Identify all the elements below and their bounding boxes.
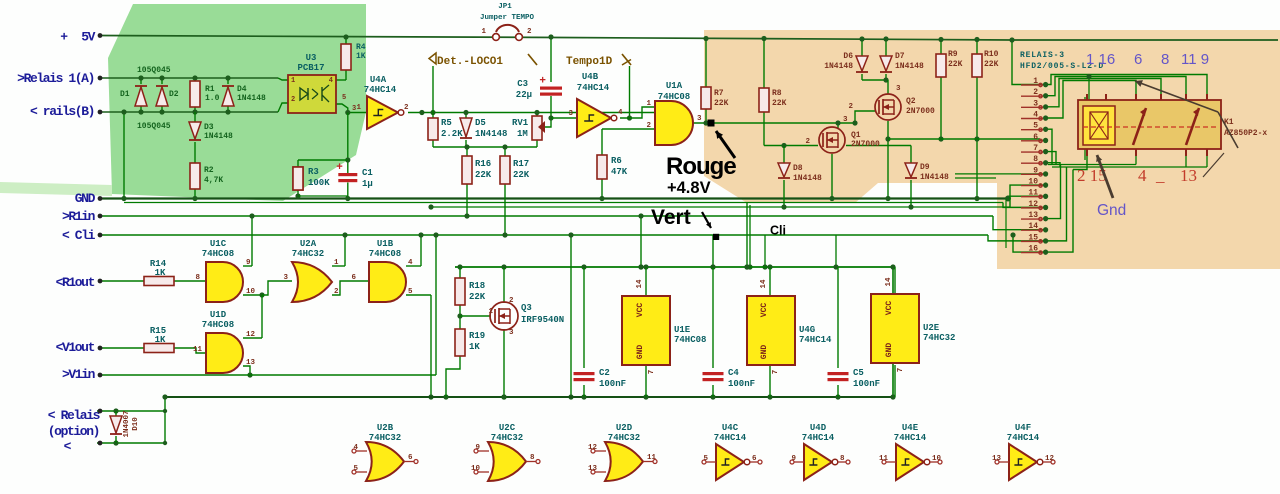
svg-text:8: 8 xyxy=(1161,51,1169,68)
svg-text:74HC08: 74HC08 xyxy=(674,335,706,345)
svg-text:74HC32: 74HC32 xyxy=(292,249,324,259)
svg-text:R2: R2 xyxy=(204,166,214,175)
svg-text:C1: C1 xyxy=(362,168,373,178)
svg-text:R17: R17 xyxy=(513,159,529,169)
svg-text:12: 12 xyxy=(1045,455,1055,463)
svg-text:R19: R19 xyxy=(469,331,485,341)
svg-text:U4D: U4D xyxy=(810,423,827,433)
svg-text:11: 11 xyxy=(879,455,889,463)
svg-text:1K: 1K xyxy=(155,268,166,278)
svg-text:D3: D3 xyxy=(204,123,214,132)
svg-text:22K: 22K xyxy=(714,99,729,108)
svg-text:4: 4 xyxy=(353,444,358,452)
svg-text:+: + xyxy=(539,76,546,88)
svg-text:D10: D10 xyxy=(132,417,140,431)
svg-text:13: 13 xyxy=(588,465,598,473)
svg-text:5: 5 xyxy=(408,288,413,296)
svg-text:74HC08: 74HC08 xyxy=(658,92,690,102)
svg-text:74HC14: 74HC14 xyxy=(802,433,835,443)
svg-text:1N4148: 1N4148 xyxy=(920,173,949,182)
svg-text:R4: R4 xyxy=(356,43,366,52)
svg-text:R10: R10 xyxy=(984,50,999,59)
svg-text:7: 7 xyxy=(648,370,656,375)
svg-text:<V1out: <V1out xyxy=(56,340,95,355)
svg-text:D6: D6 xyxy=(843,52,853,61)
svg-text:C2: C2 xyxy=(599,368,610,378)
svg-text:74HC14: 74HC14 xyxy=(577,83,610,93)
svg-text:U2B: U2B xyxy=(377,423,394,433)
svg-text:R1: R1 xyxy=(205,85,215,94)
svg-text:1K: 1K xyxy=(155,335,166,345)
svg-text:R3: R3 xyxy=(308,167,319,177)
svg-text:6: 6 xyxy=(351,274,356,282)
svg-text:7: 7 xyxy=(772,370,780,375)
svg-text:9: 9 xyxy=(246,259,251,267)
svg-text:U2D: U2D xyxy=(616,423,633,433)
svg-text:VCC: VCC xyxy=(760,303,769,318)
svg-text:< Cli: < Cli xyxy=(62,228,96,243)
svg-text:74HC14: 74HC14 xyxy=(799,335,832,345)
svg-text:U1D: U1D xyxy=(210,310,227,320)
svg-text:U3: U3 xyxy=(306,53,317,63)
svg-text:22µ: 22µ xyxy=(516,90,532,100)
svg-text:PCB17: PCB17 xyxy=(297,63,324,73)
svg-text:1N4148: 1N4148 xyxy=(824,62,853,71)
svg-text:74HC14: 74HC14 xyxy=(364,85,397,95)
svg-text:1N4148: 1N4148 xyxy=(204,132,233,141)
svg-text:Det.-LOCO1: Det.-LOCO1 xyxy=(437,56,503,68)
svg-text:R5: R5 xyxy=(441,118,452,128)
svg-text:1K: 1K xyxy=(356,52,366,61)
svg-text:1.0: 1.0 xyxy=(205,94,220,103)
svg-text:U4A: U4A xyxy=(370,75,387,85)
svg-text:1 16: 1 16 xyxy=(1086,51,1115,68)
svg-text:2N7000: 2N7000 xyxy=(851,140,880,149)
svg-text:22K: 22K xyxy=(948,60,963,69)
svg-text:74HC14: 74HC14 xyxy=(714,433,747,443)
svg-text:GND: GND xyxy=(75,191,96,206)
svg-text:2: 2 xyxy=(527,28,532,36)
svg-text:1N4007: 1N4007 xyxy=(123,410,131,437)
svg-text:1N4148: 1N4148 xyxy=(793,174,822,183)
svg-text:GND: GND xyxy=(885,343,894,358)
svg-text:74HC08: 74HC08 xyxy=(202,249,234,259)
svg-text:< rails(B): < rails(B) xyxy=(30,104,94,119)
svg-text:3: 3 xyxy=(568,110,573,118)
svg-text:2: 2 xyxy=(404,104,409,112)
svg-text:100nF: 100nF xyxy=(728,379,755,389)
svg-text:14: 14 xyxy=(760,279,768,289)
svg-text:22K: 22K xyxy=(475,170,492,180)
svg-text:>Relais 1(A): >Relais 1(A) xyxy=(17,71,94,86)
svg-text:Cli: Cli xyxy=(770,224,786,238)
svg-text:Vert: Vert xyxy=(651,206,691,229)
svg-text:<R1out: <R1out xyxy=(56,275,95,290)
svg-text:D4: D4 xyxy=(237,85,247,94)
svg-text:>R1in: >R1in xyxy=(62,209,96,224)
svg-text:D8: D8 xyxy=(793,164,803,173)
svg-text:U4B: U4B xyxy=(582,72,599,82)
svg-text:22K: 22K xyxy=(984,60,999,69)
svg-text:2: 2 xyxy=(805,138,810,146)
svg-text:6: 6 xyxy=(1134,51,1142,68)
svg-text:1K: 1K xyxy=(469,342,480,352)
svg-text:3: 3 xyxy=(283,274,288,282)
svg-text:C3: C3 xyxy=(517,79,528,89)
svg-text:Rouge: Rouge xyxy=(666,153,736,180)
svg-text:RELAIS-3: RELAIS-3 xyxy=(1020,51,1065,60)
svg-text:1: 1 xyxy=(646,100,651,108)
svg-text:U2E: U2E xyxy=(923,323,940,333)
svg-text:74HC14: 74HC14 xyxy=(894,433,927,443)
svg-text:D1: D1 xyxy=(120,90,130,99)
svg-text:2: 2 xyxy=(334,288,339,296)
svg-text:1: 1 xyxy=(334,259,339,267)
svg-text:R6: R6 xyxy=(611,156,622,166)
svg-text:U1A: U1A xyxy=(666,81,683,91)
svg-text:22K: 22K xyxy=(513,170,530,180)
svg-text:2: 2 xyxy=(509,297,514,305)
svg-text:3: 3 xyxy=(843,116,848,124)
svg-text:2: 2 xyxy=(291,96,295,104)
svg-text:5: 5 xyxy=(342,94,346,102)
svg-text:11: 11 xyxy=(647,454,657,462)
svg-text:12: 12 xyxy=(246,331,256,339)
svg-text:3: 3 xyxy=(896,85,901,93)
svg-text:1: 1 xyxy=(481,28,486,36)
svg-text:1N4148: 1N4148 xyxy=(237,94,266,103)
svg-text:Q3: Q3 xyxy=(521,303,532,313)
svg-text:VCC: VCC xyxy=(636,303,645,318)
svg-text:2: 2 xyxy=(848,103,853,111)
svg-text:R18: R18 xyxy=(469,281,485,291)
svg-text:1: 1 xyxy=(356,104,361,112)
svg-text:4: 4 xyxy=(408,259,413,267)
svg-text:1M: 1M xyxy=(517,129,528,139)
svg-text:74HC32: 74HC32 xyxy=(369,433,401,443)
svg-text:9: 9 xyxy=(475,444,480,452)
svg-text:1µ: 1µ xyxy=(362,179,373,189)
svg-text:5: 5 xyxy=(703,455,708,463)
svg-text:22K: 22K xyxy=(469,292,486,302)
svg-text:4: 4 xyxy=(1138,166,1147,185)
svg-text:13: 13 xyxy=(246,359,256,367)
svg-text:3: 3 xyxy=(352,105,356,113)
svg-text:11: 11 xyxy=(193,346,203,354)
svg-text:>V1in: >V1in xyxy=(62,367,96,382)
svg-text:74HC14: 74HC14 xyxy=(1007,433,1040,443)
svg-text:U1C: U1C xyxy=(210,239,227,249)
svg-text:1N4148: 1N4148 xyxy=(475,129,507,139)
svg-text:8: 8 xyxy=(195,274,200,282)
svg-text:Jumper TEMPO: Jumper TEMPO xyxy=(480,14,535,22)
svg-text:4: 4 xyxy=(329,77,333,85)
svg-text:74HC32: 74HC32 xyxy=(608,433,640,443)
svg-text:U4G: U4G xyxy=(799,325,815,335)
svg-text:6: 6 xyxy=(408,454,413,462)
svg-text:_: _ xyxy=(1155,166,1165,185)
svg-text:14: 14 xyxy=(885,277,893,287)
svg-text:74HC08: 74HC08 xyxy=(369,249,401,259)
svg-text:8: 8 xyxy=(840,455,845,463)
svg-text:14: 14 xyxy=(636,279,644,289)
svg-text:1: 1 xyxy=(488,308,493,316)
svg-text:74HC32: 74HC32 xyxy=(491,433,523,443)
svg-text:R8: R8 xyxy=(772,89,782,98)
svg-text:+: + xyxy=(336,162,343,174)
svg-text:GND: GND xyxy=(760,345,769,360)
svg-text:Q2: Q2 xyxy=(906,97,916,106)
svg-text:74HC08: 74HC08 xyxy=(202,320,234,330)
svg-text:IRF9540N: IRF9540N xyxy=(521,315,564,325)
svg-text:(option): (option) xyxy=(48,424,99,439)
svg-text:9: 9 xyxy=(791,455,796,463)
svg-text:13: 13 xyxy=(992,455,1002,463)
svg-text:D7: D7 xyxy=(895,52,905,61)
svg-text:3: 3 xyxy=(509,329,514,337)
svg-text:3: 3 xyxy=(697,115,702,123)
svg-text:4: 4 xyxy=(618,109,623,117)
svg-text:6: 6 xyxy=(752,455,757,463)
svg-text:< Relais: < Relais xyxy=(48,408,101,423)
svg-text:U4C: U4C xyxy=(722,423,739,433)
svg-text:U2A: U2A xyxy=(300,239,317,249)
svg-text:VCC: VCC xyxy=(885,301,894,316)
svg-text:U1B: U1B xyxy=(377,239,394,249)
svg-text:74HC32: 74HC32 xyxy=(923,333,955,343)
svg-text:2: 2 xyxy=(646,122,651,130)
svg-text:Tempo1D: Tempo1D xyxy=(566,56,613,68)
svg-text:U4F: U4F xyxy=(1015,423,1031,433)
svg-text:1N4148: 1N4148 xyxy=(895,62,924,71)
svg-text:R16: R16 xyxy=(475,159,491,169)
svg-text:+: + xyxy=(60,30,68,45)
svg-text:105Q045: 105Q045 xyxy=(137,66,171,75)
svg-text:10: 10 xyxy=(246,288,256,296)
svg-text:GND: GND xyxy=(636,345,645,360)
svg-text:D2: D2 xyxy=(169,90,179,99)
svg-text:4,7K: 4,7K xyxy=(204,176,223,185)
svg-text:C4: C4 xyxy=(728,368,739,378)
svg-text:U4E: U4E xyxy=(902,423,919,433)
svg-text:22K: 22K xyxy=(772,99,787,108)
svg-text:5V: 5V xyxy=(81,30,95,45)
svg-text:10: 10 xyxy=(471,465,481,473)
svg-text:12: 12 xyxy=(588,444,598,452)
svg-text:Q1: Q1 xyxy=(851,131,861,140)
svg-text:11 9: 11 9 xyxy=(1181,51,1209,68)
svg-text:U2C: U2C xyxy=(499,423,516,433)
svg-text:105Q045: 105Q045 xyxy=(137,122,171,131)
svg-text:D5: D5 xyxy=(475,118,486,128)
svg-text:1: 1 xyxy=(291,77,295,85)
svg-text:10: 10 xyxy=(932,455,942,463)
svg-text:D9: D9 xyxy=(920,163,930,172)
svg-text:C5: C5 xyxy=(853,368,864,378)
svg-text:100nF: 100nF xyxy=(853,379,880,389)
svg-text:100nF: 100nF xyxy=(599,379,626,389)
svg-text:R9: R9 xyxy=(948,50,958,59)
svg-text:+4.8V: +4.8V xyxy=(667,179,711,197)
svg-text:8: 8 xyxy=(530,454,535,462)
svg-text:2.2K: 2.2K xyxy=(441,129,463,139)
svg-text:RV1: RV1 xyxy=(512,118,529,128)
svg-text:JP1: JP1 xyxy=(498,3,512,11)
svg-text:7: 7 xyxy=(897,368,905,373)
svg-text:13: 13 xyxy=(1180,166,1197,185)
svg-text:Gnd: Gnd xyxy=(1097,202,1126,219)
svg-text:R7: R7 xyxy=(714,89,724,98)
svg-text:100K: 100K xyxy=(308,178,330,188)
svg-text:2N7000: 2N7000 xyxy=(906,107,935,116)
svg-text:5: 5 xyxy=(353,465,358,473)
svg-text:U1E: U1E xyxy=(674,325,691,335)
svg-text:47K: 47K xyxy=(611,167,628,177)
